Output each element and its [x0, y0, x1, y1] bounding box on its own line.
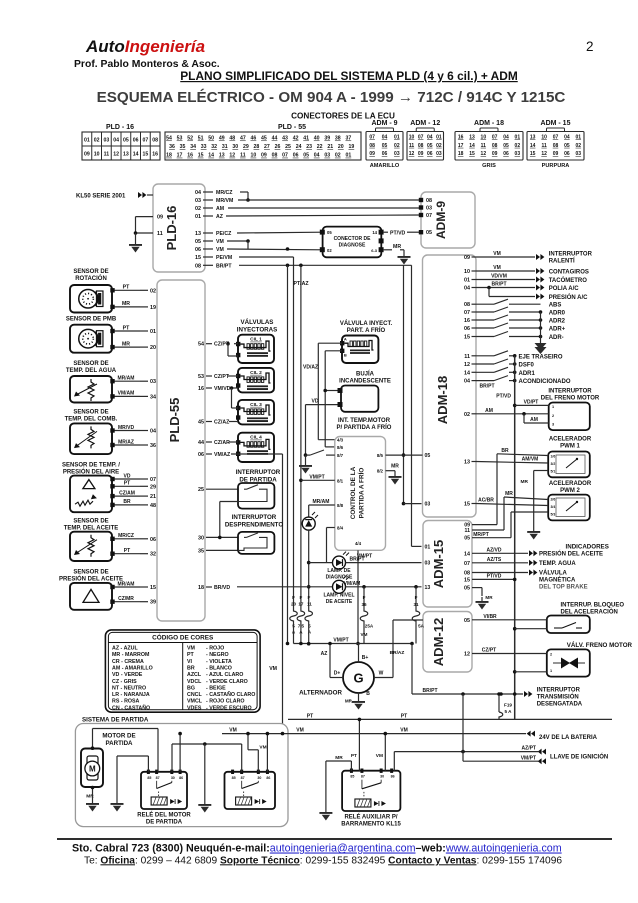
svg-text:09: 09 — [418, 151, 424, 157]
svg-text:BR: BR — [501, 448, 509, 454]
svg-text:31: 31 — [222, 144, 228, 150]
svg-text:8/4: 8/4 — [337, 526, 344, 531]
svg-text:TEMP. DEL COMB.: TEMP. DEL COMB. — [65, 417, 118, 423]
svg-text:PWM 2: PWM 2 — [560, 488, 580, 494]
svg-text:BR/VD: BR/VD — [214, 585, 230, 591]
svg-text:MOTOR DE: MOTOR DE — [102, 733, 135, 740]
svg-text:INYECTORAS: INYECTORAS — [237, 327, 277, 334]
svg-text:TEMP. DEL ACEITE: TEMP. DEL ACEITE — [64, 526, 119, 532]
svg-text:PWM 1: PWM 1 — [560, 444, 580, 450]
svg-text:04: 04 — [564, 135, 570, 141]
svg-text:08: 08 — [464, 302, 470, 308]
svg-text:02: 02 — [327, 248, 332, 253]
svg-text:TRANSMISIÓN: TRANSMISIÓN — [537, 693, 579, 701]
svg-text:30: 30 — [380, 775, 384, 779]
svg-text:VDCL: VDCL — [187, 679, 202, 685]
svg-text:04: 04 — [427, 135, 433, 141]
svg-text:AM: AM — [485, 408, 493, 414]
svg-text:85: 85 — [147, 776, 151, 780]
svg-text:04: 04 — [464, 286, 470, 292]
svg-text:5 A: 5 A — [505, 709, 513, 714]
svg-text:16: 16 — [198, 386, 204, 392]
svg-text:22: 22 — [317, 144, 323, 150]
svg-text:MR/AM: MR/AM — [313, 499, 330, 505]
svg-text:MR/PT: MR/PT — [473, 532, 489, 538]
svg-text:INCANDESCENTE: INCANDESCENTE — [339, 379, 391, 385]
svg-text:11: 11 — [307, 602, 312, 607]
svg-text:8/8: 8/8 — [337, 503, 344, 508]
svg-text:46: 46 — [251, 136, 257, 142]
svg-text:11: 11 — [481, 143, 487, 149]
svg-text:13: 13 — [530, 135, 536, 141]
svg-text:F: F — [363, 595, 366, 600]
svg-text:01: 01 — [576, 135, 582, 141]
svg-text:29: 29 — [150, 484, 156, 490]
svg-text:2: 2 — [586, 39, 594, 54]
svg-text:VM: VM — [493, 265, 501, 271]
svg-text:CÓDIGO DE CORES: CÓDIGO DE CORES — [152, 633, 214, 642]
svg-text:30: 30 — [257, 776, 261, 780]
svg-text:PRESIÓN DEL ACEITE: PRESIÓN DEL ACEITE — [539, 550, 603, 558]
svg-text:07: 07 — [464, 310, 470, 316]
svg-text:AM - AMARILLO: AM - AMARILLO — [112, 665, 153, 671]
svg-text:03: 03 — [426, 206, 432, 212]
svg-text:CN - CASTAÑO: CN - CASTAÑO — [112, 704, 150, 711]
svg-text:14: 14 — [372, 230, 377, 235]
svg-text:27: 27 — [264, 144, 270, 150]
svg-text:VM/PT: VM/PT — [333, 638, 348, 644]
svg-text:11: 11 — [409, 143, 415, 149]
svg-text:05: 05 — [564, 143, 570, 149]
svg-text:01: 01 — [464, 278, 470, 284]
svg-text:PT/VD: PT/VD — [390, 230, 406, 236]
svg-text:BUJÍA: BUJÍA — [356, 370, 375, 378]
svg-text:ADR0: ADR0 — [549, 311, 566, 317]
svg-text:05: 05 — [195, 239, 201, 245]
svg-text:02: 02 — [515, 143, 521, 149]
svg-text:VM: VM — [493, 251, 501, 257]
svg-text:39: 39 — [150, 600, 156, 606]
svg-text:07: 07 — [143, 138, 149, 144]
svg-text:MR: MR — [122, 301, 130, 307]
svg-text:PRESIÓN DEL AIRE: PRESIÓN DEL AIRE — [63, 468, 119, 476]
svg-text:PT: PT — [307, 713, 313, 719]
svg-text:PARTIDA A FRÍO: PARTIDA A FRÍO — [357, 468, 366, 519]
svg-text:MR: MR — [485, 595, 493, 600]
svg-text:1/6: 1/6 — [551, 455, 556, 459]
svg-text:MR: MR — [505, 491, 513, 497]
svg-text:03: 03 — [394, 151, 400, 157]
svg-text:49: 49 — [219, 136, 225, 142]
svg-text:01: 01 — [515, 135, 521, 141]
svg-text:W: W — [379, 671, 384, 677]
svg-text:VM/VD: VM/VD — [214, 386, 231, 392]
svg-text:44: 44 — [198, 440, 204, 446]
svg-text:VM: VM — [187, 646, 196, 652]
svg-text:MR/CZ: MR/CZ — [216, 190, 233, 196]
svg-text:09: 09 — [84, 152, 90, 158]
svg-text:VM/PT: VM/PT — [309, 474, 324, 480]
svg-text:4/3: 4/3 — [337, 438, 344, 443]
svg-text:VM: VM — [216, 247, 224, 253]
svg-text:14: 14 — [133, 152, 139, 158]
svg-text:KL50 SERIE 2001: KL50 SERIE 2001 — [76, 194, 126, 200]
svg-text:02: 02 — [150, 288, 156, 294]
svg-text:10: 10 — [464, 269, 470, 275]
svg-text:24: 24 — [296, 144, 302, 150]
svg-text:PRESIÓN A/C: PRESIÓN A/C — [549, 293, 588, 301]
svg-text:13: 13 — [123, 152, 129, 158]
svg-text:01: 01 — [436, 135, 442, 141]
svg-text:MR: MR — [345, 699, 353, 704]
svg-text:8/1: 8/1 — [337, 478, 344, 483]
svg-text:18: 18 — [166, 153, 172, 159]
svg-text:CIL 1: CIL 1 — [250, 337, 262, 343]
svg-text:VÁLVULAS: VÁLVULAS — [241, 319, 274, 326]
svg-text:53: 53 — [177, 136, 183, 142]
svg-text:17: 17 — [177, 153, 183, 159]
svg-text:08: 08 — [464, 571, 470, 577]
svg-text:42: 42 — [293, 136, 299, 142]
svg-text:36: 36 — [361, 602, 367, 607]
svg-text:ROTACIÓN: ROTACIÓN — [75, 274, 107, 282]
svg-text:24V DE LA BATERIA: 24V DE LA BATERIA — [539, 735, 598, 741]
svg-text:03: 03 — [324, 153, 330, 159]
svg-text:VD/VM: VD/VM — [491, 274, 507, 280]
svg-text:10: 10 — [251, 153, 257, 159]
svg-text:ADR1: ADR1 — [519, 371, 536, 377]
svg-text:CR - CREMA: CR - CREMA — [112, 659, 144, 665]
svg-text:32: 32 — [211, 144, 217, 150]
svg-text:VMCL: VMCL — [187, 699, 203, 705]
svg-text:05: 05 — [123, 138, 129, 144]
svg-text:B: B — [366, 691, 370, 697]
svg-text:87: 87 — [241, 776, 245, 780]
svg-text:AM: AM — [216, 206, 224, 212]
svg-text:SENSOR DE: SENSOR DE — [73, 570, 108, 576]
svg-text:39: 39 — [324, 136, 330, 142]
svg-text:16: 16 — [464, 318, 470, 324]
svg-text:12: 12 — [541, 151, 547, 157]
svg-text:13: 13 — [425, 585, 431, 591]
svg-text:VD/AZ: VD/AZ — [303, 365, 318, 371]
svg-text:15: 15 — [195, 255, 201, 261]
svg-text:CIL 2: CIL 2 — [250, 370, 262, 376]
svg-text:CZ/PT: CZ/PT — [482, 648, 496, 654]
svg-text:TEMP. AGUA: TEMP. AGUA — [539, 561, 576, 567]
svg-text:07: 07 — [464, 561, 470, 567]
svg-text:AM: AM — [530, 417, 538, 423]
svg-text:12: 12 — [464, 362, 470, 368]
svg-text:08: 08 — [195, 263, 201, 269]
svg-text:AZ - AZUL: AZ - AZUL — [112, 646, 138, 652]
svg-text:02: 02 — [335, 153, 341, 159]
svg-text:AZ/PT: AZ/PT — [522, 746, 536, 752]
svg-text:11: 11 — [465, 528, 471, 534]
svg-text:54: 54 — [198, 342, 204, 348]
svg-text:37: 37 — [345, 136, 351, 142]
svg-text:06: 06 — [195, 247, 201, 253]
svg-text:10: 10 — [409, 135, 415, 141]
svg-text:85: 85 — [232, 776, 236, 780]
svg-text:P/ PARTIDA A FRÍO: P/ PARTIDA A FRÍO — [337, 423, 392, 431]
svg-text:POLIA A/C: POLIA A/C — [549, 286, 580, 292]
svg-text:28: 28 — [254, 144, 260, 150]
svg-text:MR/AZ: MR/AZ — [118, 439, 134, 445]
svg-text:SISTEMA DE PARTIDA: SISTEMA DE PARTIDA — [82, 717, 149, 724]
svg-text:02: 02 — [576, 143, 582, 149]
svg-text:53: 53 — [198, 374, 204, 380]
svg-text:25: 25 — [285, 144, 291, 150]
svg-text:05: 05 — [382, 143, 388, 149]
svg-text:LAMP. DE: LAMP. DE — [327, 568, 351, 574]
svg-text:04: 04 — [382, 135, 388, 141]
svg-text:ACELERADOR: ACELERADOR — [549, 437, 592, 443]
svg-text:- AZUL CLARO: - AZUL CLARO — [206, 672, 243, 678]
svg-text:BR/PT: BR/PT — [350, 557, 365, 563]
svg-text:33: 33 — [201, 144, 207, 150]
svg-text:8/7: 8/7 — [337, 453, 344, 458]
svg-text:PE/CZ: PE/CZ — [216, 231, 232, 237]
svg-text:Te: Oficina: 0299 – 442 6809: Te: Oficina: 0299 – 442 6809 Soporte Téc… — [84, 855, 562, 866]
svg-text:MR/AM: MR/AM — [118, 376, 135, 382]
svg-text:48: 48 — [229, 136, 235, 142]
svg-text:VÁLVULA INYECT.: VÁLVULA INYECT. — [340, 320, 393, 327]
svg-text:06: 06 — [427, 151, 433, 157]
svg-text:01: 01 — [150, 329, 156, 335]
svg-text:3/2: 3/2 — [551, 462, 556, 466]
svg-text:11: 11 — [464, 354, 470, 360]
svg-text:MR: MR — [521, 479, 529, 485]
svg-text:20: 20 — [291, 602, 297, 607]
svg-text:PART. A FRÍO: PART. A FRÍO — [347, 326, 386, 334]
svg-text:15: 15 — [530, 151, 536, 157]
svg-text:INTERRUPTOR: INTERRUPTOR — [549, 252, 593, 258]
svg-text:DESPRENDIMENTO: DESPRENDIMENTO — [225, 522, 284, 529]
svg-text:03: 03 — [436, 151, 442, 157]
svg-text:CZ/MR: CZ/MR — [118, 596, 134, 602]
svg-text:06: 06 — [150, 537, 156, 543]
svg-text:NT - NEUTRO: NT - NEUTRO — [112, 685, 146, 691]
svg-text:07: 07 — [282, 153, 288, 159]
svg-text:04: 04 — [464, 379, 470, 385]
svg-text:AM/VM: AM/VM — [522, 457, 539, 463]
svg-text:BR/PT: BR/PT — [492, 282, 507, 288]
svg-text:04: 04 — [503, 135, 509, 141]
svg-text:4/4: 4/4 — [355, 541, 362, 546]
svg-text:D+: D+ — [334, 671, 341, 677]
svg-text:16: 16 — [152, 152, 158, 158]
svg-text:06: 06 — [293, 153, 299, 159]
svg-text:6-3: 6-3 — [371, 248, 378, 253]
svg-text:PT: PT — [351, 753, 357, 759]
svg-text:PARTIDA: PARTIDA — [105, 740, 133, 747]
svg-text:BR: BR — [123, 499, 131, 505]
svg-text:52: 52 — [187, 136, 193, 142]
svg-text:- BLANCO: - BLANCO — [206, 665, 232, 671]
svg-text:VM: VM — [269, 666, 277, 672]
svg-text:05: 05 — [303, 153, 309, 159]
svg-text:ADM - 12: ADM - 12 — [410, 120, 440, 127]
svg-text:PT: PT — [124, 481, 130, 487]
svg-text:GRIS: GRIS — [482, 163, 496, 169]
svg-text:45: 45 — [261, 136, 267, 142]
svg-text:ABS: ABS — [549, 303, 562, 309]
svg-text:TEMP. DEL AGUA: TEMP. DEL AGUA — [66, 368, 117, 374]
svg-text:- ROJO CLARO: - ROJO CLARO — [206, 699, 245, 705]
svg-text:07: 07 — [553, 135, 559, 141]
svg-text:85: 85 — [350, 775, 354, 779]
svg-text:32: 32 — [150, 552, 156, 558]
svg-text:87: 87 — [361, 775, 365, 779]
svg-text:15: 15 — [464, 577, 470, 583]
svg-text:INTERRUPTOR: INTERRUPTOR — [236, 469, 281, 476]
svg-text:ADR-: ADR- — [549, 335, 564, 341]
svg-text:19: 19 — [348, 144, 354, 150]
svg-text:06: 06 — [503, 151, 509, 157]
svg-text:14: 14 — [464, 551, 470, 557]
svg-text:12: 12 — [113, 152, 119, 158]
svg-text:ADM - 9: ADM - 9 — [371, 120, 397, 127]
svg-text:ALTERNADOR: ALTERNADOR — [299, 690, 342, 697]
svg-text:35: 35 — [198, 548, 204, 554]
svg-text:PT: PT — [123, 285, 130, 291]
svg-text:09: 09 — [261, 153, 267, 159]
svg-text:08: 08 — [426, 198, 432, 204]
svg-text:34: 34 — [190, 144, 196, 150]
svg-text:DESENGATADA: DESENGATADA — [537, 702, 583, 708]
svg-text:VD - VERDE: VD - VERDE — [112, 672, 143, 678]
svg-text:MR - MARROM: MR - MARROM — [112, 652, 150, 658]
svg-text:11: 11 — [157, 231, 163, 237]
svg-text:F19: F19 — [504, 703, 512, 708]
svg-text:PT/VD: PT/VD — [496, 394, 511, 400]
svg-text:VÁLVULA: VÁLVULA — [539, 570, 568, 577]
svg-text:SENSOR DE PMB: SENSOR DE PMB — [66, 317, 117, 323]
svg-text:VD: VD — [312, 399, 319, 405]
svg-text:LR - NARANJA: LR - NARANJA — [112, 692, 150, 698]
svg-text:- VERDE CLARO: - VERDE CLARO — [206, 679, 248, 685]
svg-text:17: 17 — [458, 143, 464, 149]
svg-text:ACELERADOR: ACELERADOR — [549, 481, 592, 487]
svg-text:12: 12 — [229, 153, 235, 159]
svg-text:04: 04 — [314, 153, 320, 159]
svg-text:ADM-9: ADM-9 — [434, 201, 448, 239]
svg-text:2: 2 — [552, 414, 554, 418]
svg-text:A: A — [344, 336, 347, 341]
svg-text:PLD-16: PLD-16 — [164, 206, 179, 251]
svg-text:8/2: 8/2 — [377, 469, 384, 474]
svg-text:05: 05 — [426, 230, 432, 236]
svg-text:02: 02 — [94, 138, 100, 144]
svg-text:ADR2: ADR2 — [549, 319, 566, 325]
svg-text:AMARILLO: AMARILLO — [370, 163, 400, 169]
svg-text:10: 10 — [541, 135, 547, 141]
svg-text:09: 09 — [492, 151, 498, 157]
svg-text:F: F — [415, 595, 418, 600]
svg-text:01: 01 — [84, 138, 90, 144]
svg-text:CONTROL DE LA: CONTROL DE LA — [350, 466, 357, 519]
svg-text:03: 03 — [425, 502, 431, 508]
svg-text:- VERDE ESCURO: - VERDE ESCURO — [206, 705, 252, 711]
svg-text:44: 44 — [272, 136, 278, 142]
svg-text:14: 14 — [530, 143, 536, 149]
svg-text:86: 86 — [179, 776, 183, 780]
svg-text:06: 06 — [564, 151, 570, 157]
svg-text:CONECTOR DE: CONECTOR DE — [334, 236, 372, 242]
svg-text:EJE TRASEIRO: EJE TRASEIRO — [519, 354, 563, 360]
svg-text:VD: VD — [124, 473, 131, 479]
svg-text:- BEIGE: - BEIGE — [206, 685, 226, 691]
svg-text:05: 05 — [464, 618, 470, 624]
svg-text:VDES: VDES — [187, 705, 202, 711]
svg-text:PLANO SIMPLIFICADO DEL SISTEMA: PLANO SIMPLIFICADO DEL SISTEMA PLD (4 y … — [180, 69, 518, 83]
svg-text:05: 05 — [464, 586, 470, 592]
svg-text:PT: PT — [187, 652, 195, 658]
svg-text:05: 05 — [425, 453, 431, 459]
svg-text:RELÉ DEL MOTOR: RELÉ DEL MOTOR — [137, 811, 191, 819]
svg-text:BARRAMENTO KL15: BARRAMENTO KL15 — [341, 822, 401, 828]
svg-text:26: 26 — [275, 144, 281, 150]
svg-text:12: 12 — [409, 151, 415, 157]
svg-text:VM: VM — [296, 728, 304, 734]
svg-text:PLD - 55: PLD - 55 — [278, 124, 306, 131]
svg-text:SENSOR DE: SENSOR DE — [73, 519, 108, 525]
svg-text:LLAVE DE IGNICIÓN: LLAVE DE IGNICIÓN — [550, 753, 608, 761]
svg-text:INTERRUPTOR: INTERRUPTOR — [537, 688, 581, 694]
svg-text:RS - ROSA: RS - ROSA — [112, 699, 140, 705]
svg-text:VM: VM — [259, 744, 266, 750]
svg-text:MAGNÉTICA: MAGNÉTICA — [539, 576, 576, 584]
svg-text:BR: BR — [187, 665, 195, 671]
svg-text:03: 03 — [515, 151, 521, 157]
svg-text:05: 05 — [503, 143, 509, 149]
svg-text:F: F — [292, 595, 295, 600]
svg-text:AZ: AZ — [216, 214, 224, 220]
svg-text:40: 40 — [314, 136, 320, 142]
svg-text:14: 14 — [208, 153, 214, 159]
svg-text:CZ/PT: CZ/PT — [214, 374, 230, 380]
svg-text:MR: MR — [122, 341, 130, 347]
svg-text:25A: 25A — [365, 624, 374, 629]
svg-text:PT: PT — [401, 713, 407, 719]
svg-text:BR/AZ: BR/AZ — [390, 650, 405, 656]
svg-text:VM: VM — [376, 753, 383, 759]
svg-text:36: 36 — [150, 443, 156, 449]
svg-text:PLD - 16: PLD - 16 — [106, 124, 134, 131]
svg-text:PT/VD: PT/VD — [487, 574, 502, 580]
svg-text:ADM - 18: ADM - 18 — [474, 120, 504, 127]
svg-text:08: 08 — [369, 143, 375, 149]
svg-text:1: 1 — [550, 669, 552, 673]
svg-text:25: 25 — [198, 487, 204, 493]
svg-text:CZ/AM: CZ/AM — [119, 490, 135, 496]
svg-text:02: 02 — [394, 143, 400, 149]
svg-text:1: 1 — [552, 405, 554, 409]
svg-text:5A: 5A — [418, 624, 425, 629]
svg-text:INTERRUP. BLOQUEO: INTERRUP. BLOQUEO — [561, 603, 625, 609]
svg-text:- NEGRO: - NEGRO — [206, 652, 229, 658]
svg-text:AC/BR: AC/BR — [478, 498, 494, 504]
svg-text:LAMP. NIVEL: LAMP. NIVEL — [323, 593, 354, 599]
svg-text:13: 13 — [469, 135, 475, 141]
svg-text:35: 35 — [180, 144, 186, 150]
svg-text:3/4: 3/4 — [551, 505, 556, 509]
svg-text:31: 31 — [413, 602, 419, 607]
svg-text:SENSOR DE TEMP. /: SENSOR DE TEMP. / — [62, 463, 120, 469]
svg-text:02: 02 — [436, 143, 442, 149]
svg-text:- ROJO: - ROJO — [206, 646, 224, 652]
